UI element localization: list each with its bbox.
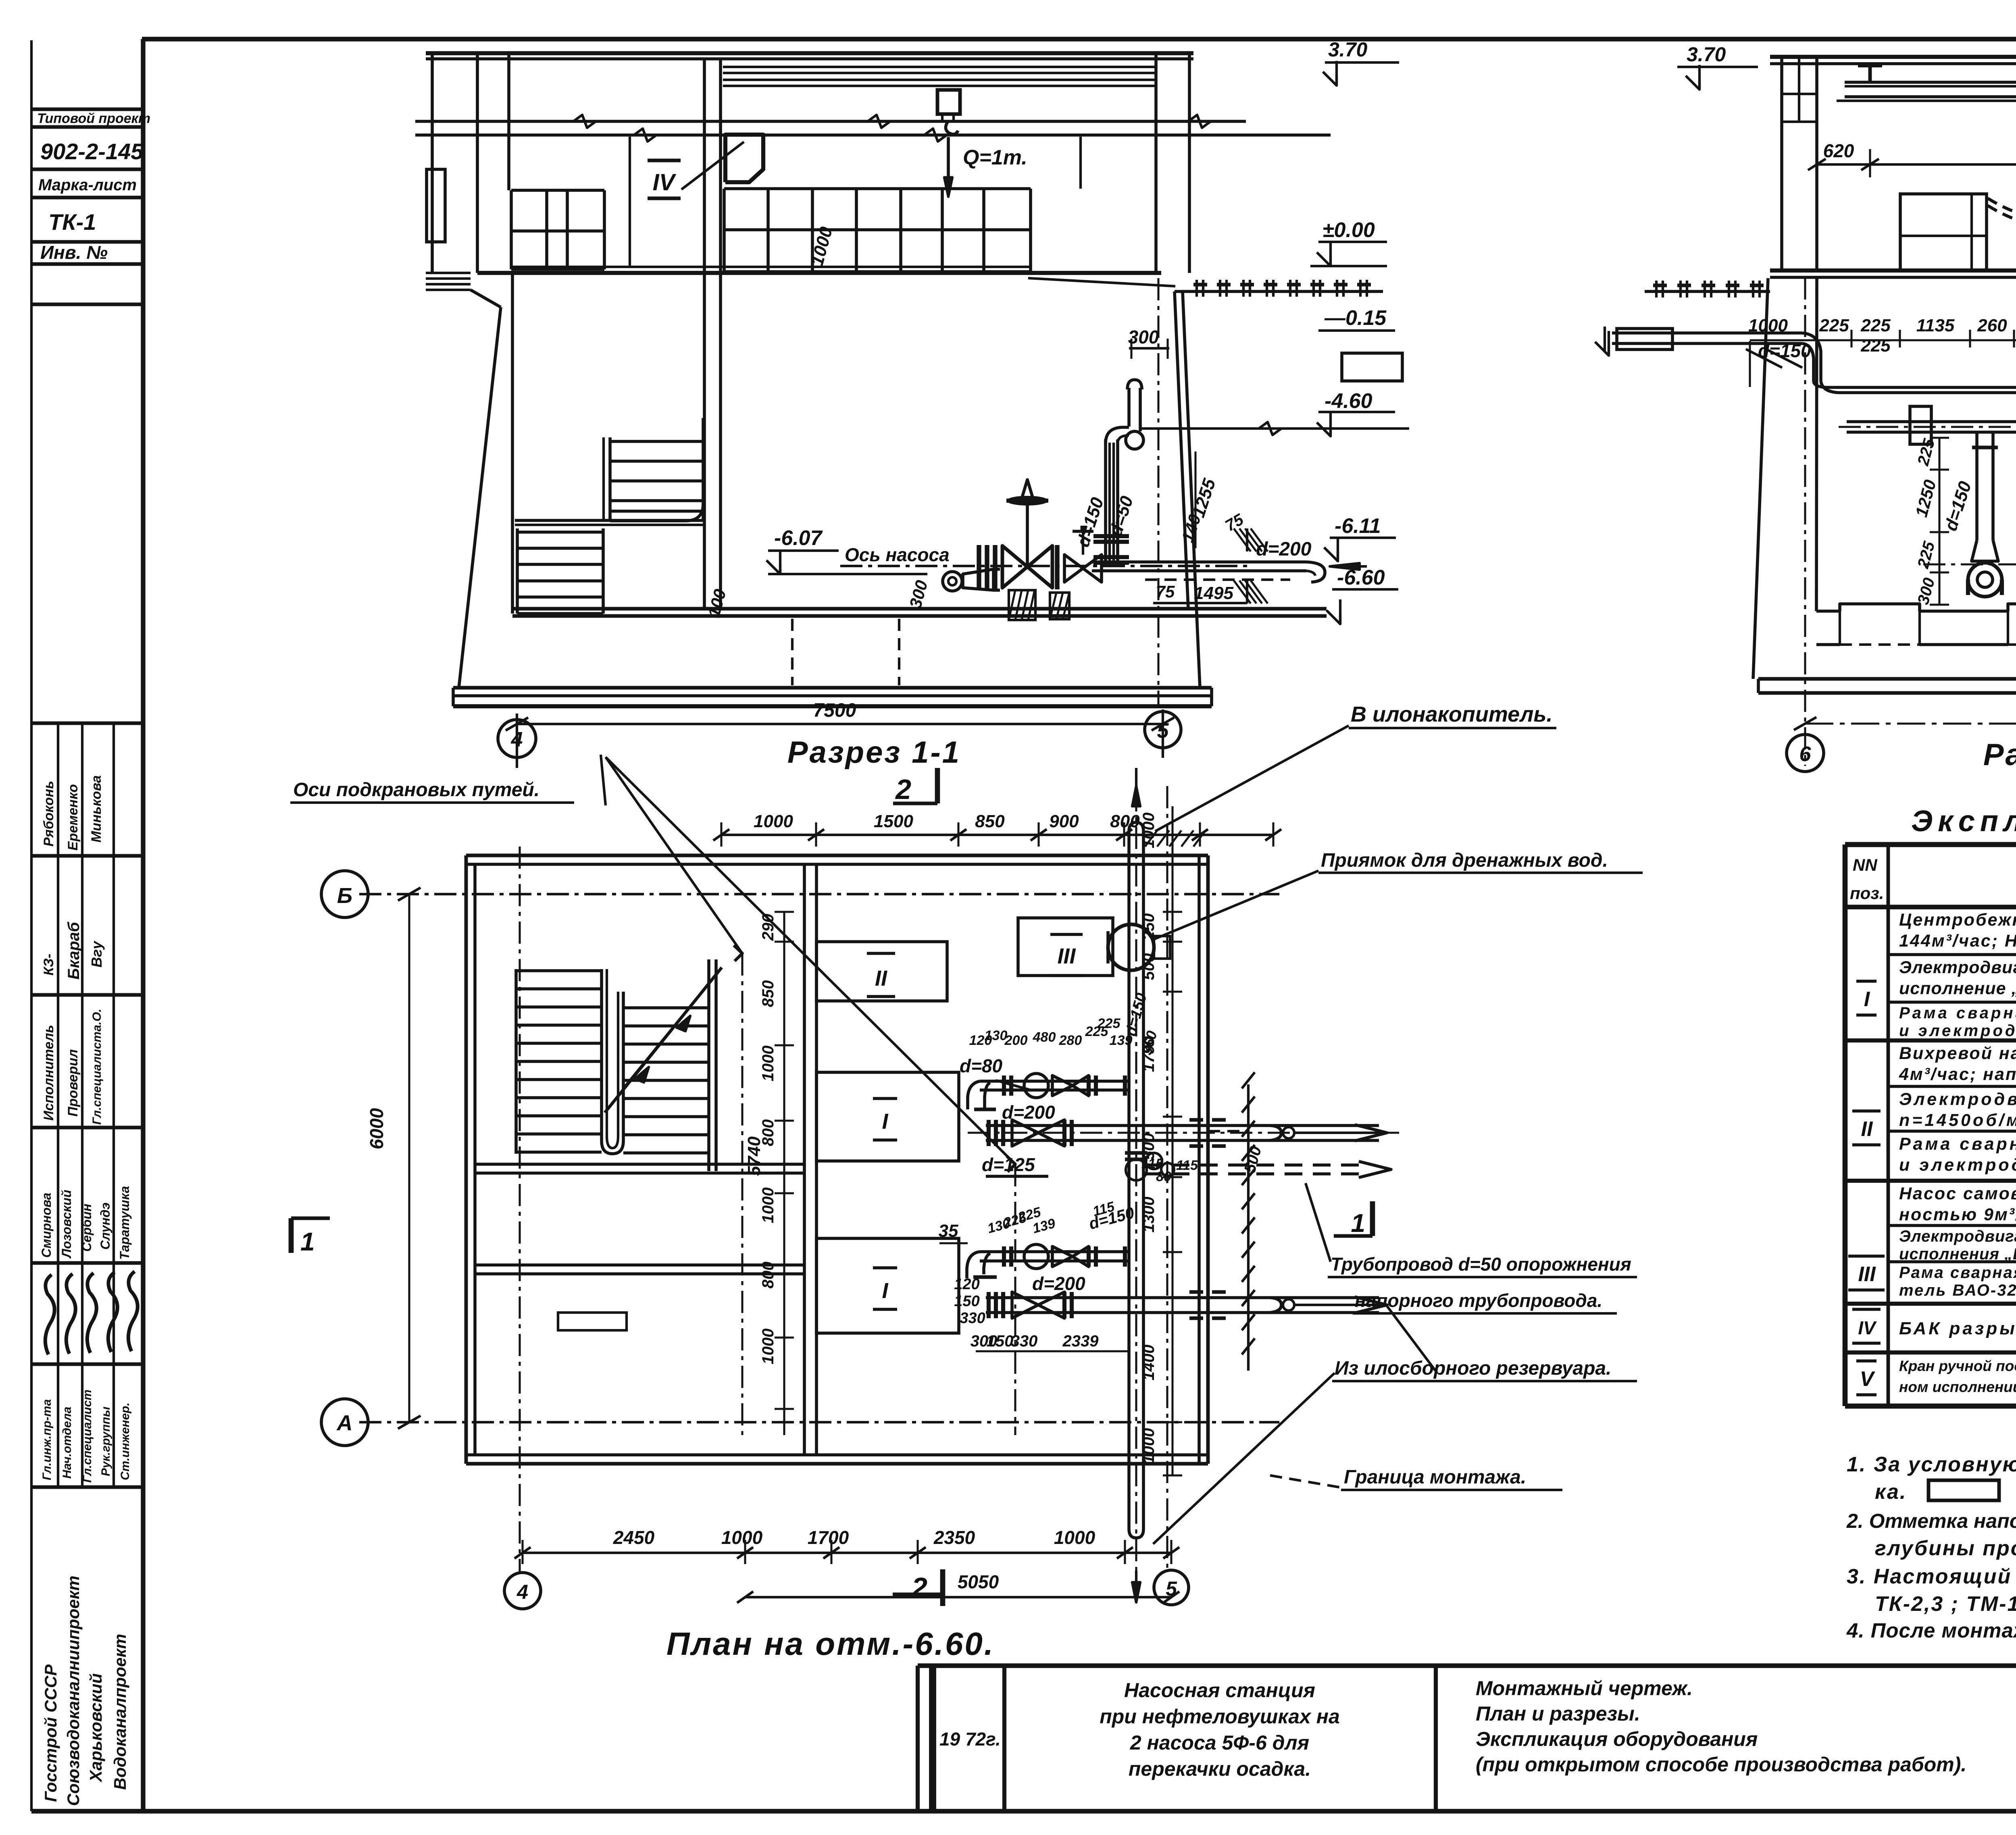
- svg-text:2450: 2450: [613, 1527, 655, 1548]
- svg-text:Типовой проект: Типовой проект: [37, 111, 150, 126]
- svg-text:исполнения „ВЗГ".: исполнения „ВЗГ".: [1899, 1245, 2016, 1263]
- svg-text:1: 1: [300, 1227, 315, 1256]
- svg-text:3.70: 3.70: [1687, 43, 1726, 66]
- svg-text:5050: 5050: [958, 1571, 999, 1592]
- svg-text:19 72г.: 19 72г.: [939, 1729, 1001, 1750]
- svg-text:В илонакопитель.: В илонакопитель.: [1351, 702, 1552, 726]
- svg-text:Водоканалпроект: Водоканалпроект: [110, 1634, 129, 1790]
- svg-text:А: А: [336, 1411, 353, 1435]
- svg-text:1000: 1000: [759, 1329, 777, 1365]
- svg-text:850: 850: [975, 811, 1005, 831]
- svg-text:Вихревой насос ВК-2/26 прои: Вихревой насос ВК-2/26 производительност…: [1899, 1044, 2016, 1063]
- svg-text:Насосная станция: Насосная станция: [1124, 1679, 1315, 1702]
- svg-text:1255: 1255: [1189, 476, 1220, 520]
- svg-text:1400: 1400: [1140, 1345, 1158, 1381]
- svg-text:при нефтеловушках на: при нефтеловушках на: [1100, 1705, 1340, 1728]
- svg-text:1135: 1135: [1916, 316, 1955, 335]
- svg-text:1000: 1000: [1748, 316, 1788, 335]
- svg-text:Инв. №: Инв. №: [40, 242, 108, 263]
- svg-text:-4.60: -4.60: [1325, 389, 1372, 413]
- svg-text:Q=1т.: Q=1т.: [963, 146, 1027, 169]
- svg-text:Разрез 1-1: Разрез 1-1: [787, 735, 961, 770]
- svg-text:Бкараб: Бкараб: [65, 922, 83, 980]
- svg-text:IV: IV: [653, 169, 677, 196]
- svg-text:225: 225: [1860, 316, 1891, 335]
- svg-text:260: 260: [1977, 316, 2007, 335]
- svg-text:225: 225: [1914, 539, 1938, 571]
- svg-text:Граница монтажа.: Граница монтажа.: [1344, 1467, 1526, 1488]
- svg-text:1. За условную отметку ±0.00: 1. За условную отметку ±0.000 принята аб…: [1847, 1453, 2016, 1476]
- svg-text:Рама сварная под насос 5Ф-: Рама сварная под насос 5Ф-6.: [1899, 1004, 2016, 1022]
- svg-text:225: 225: [1914, 437, 1938, 468]
- svg-text:Вгу: Вгу: [88, 940, 105, 967]
- svg-text:1000: 1000: [1140, 1428, 1158, 1464]
- svg-text:Ось насоса: Ось насоса: [845, 544, 950, 565]
- svg-text:Рама сварная под насос ВК: Рама сварная под насос ВК-2/26: [1899, 1134, 2016, 1154]
- svg-text:1000: 1000: [759, 1188, 777, 1223]
- svg-text:и электродвигатель ВАО-81-4.: и электродвигатель ВАО-81-4.: [1899, 1022, 2016, 1040]
- svg-text:-6.07: -6.07: [774, 526, 823, 550]
- svg-text:d=200: d=200: [1002, 1102, 1055, 1123]
- svg-text:1000: 1000: [1140, 813, 1158, 849]
- svg-text:3. Настоящий чертеж рассматр: 3. Настоящий чертеж рассматривать совмес…: [1847, 1565, 2016, 1588]
- svg-text:Разрез 2-2: Разрез 2-2: [1983, 738, 2016, 772]
- svg-text:Насос самовсасывающий НЦС-3: Насос самовсасывающий НЦС-3 производител…: [1899, 1184, 2016, 1203]
- svg-text:Из илосборного резервуара.: Из илосборного резервуара.: [1335, 1358, 1611, 1379]
- svg-text:ном исполнении „ВЗГ;"грузопод: ном исполнении „ВЗГ;"грузоподъемностью1т…: [1899, 1379, 2016, 1395]
- svg-text:NN: NN: [1853, 855, 1878, 874]
- svg-text:Экспликация: Экспликация: [1911, 804, 2016, 838]
- svg-text:d=150: d=150: [1758, 340, 1811, 361]
- svg-text:200: 200: [1004, 1033, 1028, 1048]
- svg-text:и электродвигатель ВАО-42-4.: и электродвигатель ВАО-42-4.: [1899, 1155, 2016, 1175]
- svg-text:Оси подкрановых путей.: Оси подкрановых путей.: [293, 779, 539, 801]
- svg-text:Нач.отдела: Нач.отдела: [60, 1406, 74, 1479]
- svg-text:800: 800: [759, 1262, 777, 1289]
- svg-text:6: 6: [1799, 743, 1812, 766]
- svg-text:IV: IV: [1858, 1317, 1877, 1338]
- svg-text:I: I: [1864, 988, 1870, 1011]
- svg-text:1700: 1700: [808, 1527, 849, 1548]
- svg-text:Б: Б: [337, 884, 352, 908]
- svg-text:d=200: d=200: [1256, 539, 1312, 560]
- svg-text:7500: 7500: [813, 700, 856, 721]
- svg-text:±0.00: ±0.00: [1322, 218, 1375, 242]
- svg-text:4. После монтажа трубы окра: 4. После монтажа трубы окрасить масляной…: [1846, 1619, 2016, 1642]
- svg-text:Экспликация оборудования: Экспликация оборудования: [1476, 1728, 1758, 1750]
- svg-text:250: 250: [1140, 913, 1158, 941]
- svg-text:III: III: [1858, 1263, 1876, 1286]
- svg-text:300: 300: [1128, 327, 1159, 347]
- svg-text:2. Отметка напорного трубопр: 2. Отметка напорного трубопровода переме…: [1846, 1510, 2016, 1532]
- svg-text:глубины промерзания грунта.: глубины промерзания грунта.: [1875, 1537, 2016, 1560]
- svg-text:Сербин: Сербин: [79, 1204, 94, 1252]
- svg-text:ка.: ка.: [1875, 1480, 1907, 1504]
- svg-text:115: 115: [1176, 1158, 1198, 1173]
- svg-text:500: 500: [1140, 1133, 1158, 1160]
- svg-text:d=200: d=200: [1032, 1273, 1085, 1294]
- svg-text:850: 850: [759, 980, 777, 1007]
- svg-text:Минькова: Минькова: [89, 775, 104, 843]
- svg-text:Электродвигатель ВАО-32-2; N=: Электродвигатель ВАО-32-2; N=4квт; n=300…: [1899, 1227, 2016, 1245]
- svg-text:150: 150: [987, 1332, 1014, 1350]
- svg-text:Ст.инженер.: Ст.инженер.: [119, 1402, 132, 1480]
- svg-text:75: 75: [1222, 510, 1247, 535]
- svg-text:III: III: [1057, 944, 1076, 968]
- svg-text:ТК-1: ТК-1: [48, 209, 96, 235]
- svg-text:Гл.специалиста.О.: Гл.специалиста.О.: [90, 1009, 104, 1125]
- svg-text:1000: 1000: [759, 1046, 777, 1082]
- svg-text:тель ВАО-32-2.: тель ВАО-32-2.: [1899, 1282, 2016, 1299]
- svg-text:I: I: [882, 1279, 888, 1303]
- svg-text:Приямок для дренажных вод.: Приямок для дренажных вод.: [1321, 850, 1608, 871]
- svg-text:КЗ-: КЗ-: [41, 954, 56, 976]
- svg-text:225: 225: [1819, 316, 1849, 335]
- svg-text:Гл.инж.пр-та: Гл.инж.пр-та: [40, 1399, 54, 1480]
- svg-text:n=1450об/мин, исполнение „ВЗ: n=1450об/мин, исполнение „ВЗГ".: [1899, 1111, 2016, 1130]
- svg-text:ТК-2,3 ; ТМ-1÷3.: ТК-2,3 ; ТМ-1÷3.: [1875, 1592, 2016, 1616]
- svg-text:d=80: d=80: [960, 1055, 1003, 1076]
- svg-text:144м³/час; Напор 46м.; Дк =38: 144м³/час; Напор 46м.; Дк =385 мм.: [1899, 931, 2016, 951]
- svg-text:480: 480: [1033, 1030, 1056, 1045]
- svg-text:1300: 1300: [1140, 1197, 1158, 1233]
- svg-text:Рябоконь: Рябоконь: [41, 781, 56, 847]
- svg-text:Лозовский: Лозовский: [59, 1190, 74, 1259]
- svg-text:902-2-145: 902-2-145: [40, 139, 144, 164]
- svg-text:Харьковский: Харьковский: [86, 1673, 105, 1783]
- svg-text:4: 4: [516, 1581, 528, 1603]
- svg-text:1250: 1250: [1912, 478, 1940, 519]
- svg-text:300: 300: [1914, 576, 1939, 607]
- svg-text:150: 150: [954, 1293, 979, 1310]
- svg-text:4: 4: [511, 728, 523, 751]
- svg-text:1790: 1790: [1140, 1036, 1158, 1072]
- svg-text:Гл.специалист: Гл.специалист: [81, 1390, 94, 1483]
- svg-text:6000: 6000: [366, 1108, 387, 1149]
- svg-text:напорного трубопровода.: напорного трубопровода.: [1355, 1290, 1602, 1311]
- svg-text:75: 75: [1156, 582, 1175, 601]
- svg-text:500: 500: [1140, 953, 1158, 980]
- svg-text:2: 2: [911, 1572, 927, 1603]
- svg-text:Монтажный чертеж.: Монтажный чертеж.: [1476, 1677, 1693, 1700]
- svg-text:Исполнитель: Исполнитель: [41, 1025, 56, 1121]
- svg-text:Рук.группы: Рук.группы: [99, 1406, 112, 1476]
- svg-text:Союзводоканалниипроект: Союзводоканалниипроект: [64, 1576, 83, 1806]
- svg-text:Электродвигатель ВАО-81-4; N: Электродвигатель ВАО-81-4; N=40квт; n=15…: [1899, 958, 2016, 977]
- svg-text:900: 900: [1049, 811, 1079, 831]
- svg-text:V: V: [1860, 1367, 1876, 1391]
- svg-text:2: 2: [895, 774, 911, 805]
- svg-text:II: II: [875, 966, 887, 990]
- svg-text:Трубопровод d=50 опорожнения: Трубопровод d=50 опорожнения: [1331, 1254, 1631, 1275]
- svg-text:290: 290: [759, 914, 777, 941]
- svg-text:ностью 9м³/час. напор 21.7м;: ностью 9м³/час. напор 21.7м; ДК-140мм.: [1899, 1205, 2016, 1224]
- svg-text:1500: 1500: [874, 811, 913, 831]
- svg-text:—0.15: —0.15: [1324, 306, 1387, 330]
- svg-text:1000: 1000: [1054, 1527, 1095, 1548]
- svg-text:Кран ручной подвесной одноб: Кран ручной подвесной однобалочный во вз…: [1899, 1358, 2016, 1374]
- svg-text:800: 800: [759, 1119, 777, 1146]
- svg-text:3.70: 3.70: [1328, 38, 1368, 61]
- svg-text:225: 225: [1097, 1016, 1121, 1031]
- svg-text:620: 620: [1823, 140, 1854, 161]
- svg-text:План на отм.-6.60.: План на отм.-6.60.: [666, 1626, 995, 1662]
- svg-text:-6.60: -6.60: [1337, 566, 1385, 589]
- svg-text:I: I: [882, 1109, 888, 1134]
- svg-text:4м³/час; напор 50м; Дк=218мм.: 4м³/час; напор 50м; Дк=218мм.: [1899, 1065, 2016, 1084]
- svg-text:II: II: [1861, 1117, 1873, 1141]
- svg-text:БАК разрыва струи емкост: БАК разрыва струи емкостью 180литров.: [1899, 1319, 2016, 1338]
- svg-text:Госстрой СССР: Госстрой СССР: [41, 1664, 60, 1802]
- svg-text:Рама сварная под насос НЦС-3: Рама сварная под насос НЦС-3 и электродв…: [1899, 1264, 2016, 1282]
- svg-text:-6.11: -6.11: [1335, 514, 1381, 538]
- svg-text:280: 280: [1059, 1033, 1082, 1048]
- svg-text:1: 1: [1351, 1209, 1365, 1238]
- svg-text:120: 120: [954, 1276, 979, 1293]
- svg-text:2339: 2339: [1062, 1332, 1099, 1350]
- svg-text:2 насоса 5Ф-6 для: 2 насоса 5Ф-6 для: [1130, 1731, 1309, 1754]
- svg-text:35: 35: [939, 1221, 958, 1241]
- svg-text:1000: 1000: [721, 1527, 763, 1548]
- svg-text:Смирнова: Смирнова: [39, 1193, 54, 1258]
- svg-text:1000: 1000: [754, 811, 793, 831]
- svg-text:300: 300: [906, 578, 931, 610]
- svg-text:(при открытом способе произ: (при открытом способе производства работ…: [1476, 1753, 1966, 1776]
- svg-text:2350: 2350: [933, 1527, 975, 1548]
- svg-text:Еременко: Еременко: [65, 784, 81, 851]
- svg-text:1495: 1495: [1194, 583, 1233, 603]
- svg-text:План и разрезы.: План и разрезы.: [1476, 1702, 1640, 1725]
- svg-text:Проверил: Проверил: [65, 1049, 81, 1117]
- svg-text:Слундэ: Слундэ: [98, 1203, 112, 1250]
- svg-text:225: 225: [1860, 336, 1891, 356]
- svg-text:перекачки осадка.: перекачки осадка.: [1129, 1758, 1311, 1780]
- svg-text:d=150: d=150: [1941, 479, 1975, 533]
- svg-text:Электродвигатель ВАО-42-4; N: Электродвигатель ВАО-42-4; N=5.5 квт.: [1899, 1090, 2016, 1109]
- svg-text:Центробежный насос 5Ф-6 прои: Центробежный насос 5Ф-6 производительнос…: [1899, 910, 2016, 930]
- svg-text:поз.: поз.: [1850, 884, 1884, 903]
- svg-text:исполнение „ВЗГ".: исполнение „ВЗГ".: [1899, 979, 2016, 998]
- svg-text:130: 130: [985, 1028, 1008, 1043]
- svg-text:330: 330: [960, 1310, 985, 1327]
- svg-text:Таратушка: Таратушка: [117, 1186, 132, 1260]
- svg-text:5: 5: [1157, 719, 1169, 743]
- svg-text:Марка-лист: Марка-лист: [38, 176, 137, 194]
